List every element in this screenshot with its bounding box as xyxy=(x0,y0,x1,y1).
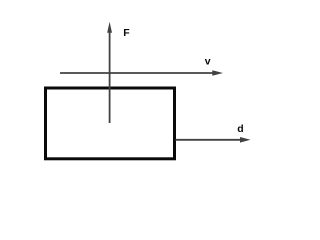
force arrow F head xyxy=(107,22,112,33)
velocity arrow v wire xyxy=(60,72,214,74)
velocity arrow v head xyxy=(212,70,223,75)
displacement arrow d head xyxy=(240,137,251,143)
svg-text:F: F xyxy=(123,27,130,39)
svg-text:d: d xyxy=(237,123,243,135)
block (rectangle body) xyxy=(46,88,175,159)
force arrow F wire xyxy=(109,30,111,123)
displacement arrow d wire xyxy=(176,139,242,141)
svg-text:v: v xyxy=(205,56,211,68)
